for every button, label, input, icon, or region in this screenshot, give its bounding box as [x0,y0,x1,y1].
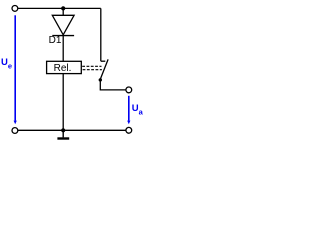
wire diode cathode to coil [62,36,64,62]
terminal bottom-left (input -) [12,128,18,134]
wire switch pivot to output terminal [100,80,125,90]
wire right branch down to switch fixed contact [100,8,102,61]
mechanical linkage dashed line upper [82,65,101,67]
switch fixed contact foot [101,60,106,62]
svg-text:D1: D1 [49,35,62,46]
diode D1 triangle [52,15,74,35]
ground [57,130,69,139]
switch pivot junction [99,78,102,81]
voltage arrow Ua [127,96,130,125]
junction node at diode top [61,6,65,10]
relay coil box [47,61,82,73]
mechanical linkage dashed line lower [83,69,102,71]
svg-text:Ue: Ue [1,57,12,70]
voltage arrow Ue [14,15,17,124]
wire coil bottom to ground node [62,74,64,131]
switch blade (relay contact) [100,59,108,80]
svg-text:Ua: Ua [132,103,144,116]
wire diode anode [62,8,64,15]
terminal top-left (input +) [12,5,18,11]
wire bottom horizontal [18,129,126,131]
terminal bottom-right (output -) [126,127,132,133]
junction node at ground [61,128,65,132]
terminal top-right (output +) [126,87,132,93]
svg-text:Rel.: Rel. [54,63,72,74]
wire top horizontal [18,7,101,9]
diode D1 cathode bar [52,35,74,37]
